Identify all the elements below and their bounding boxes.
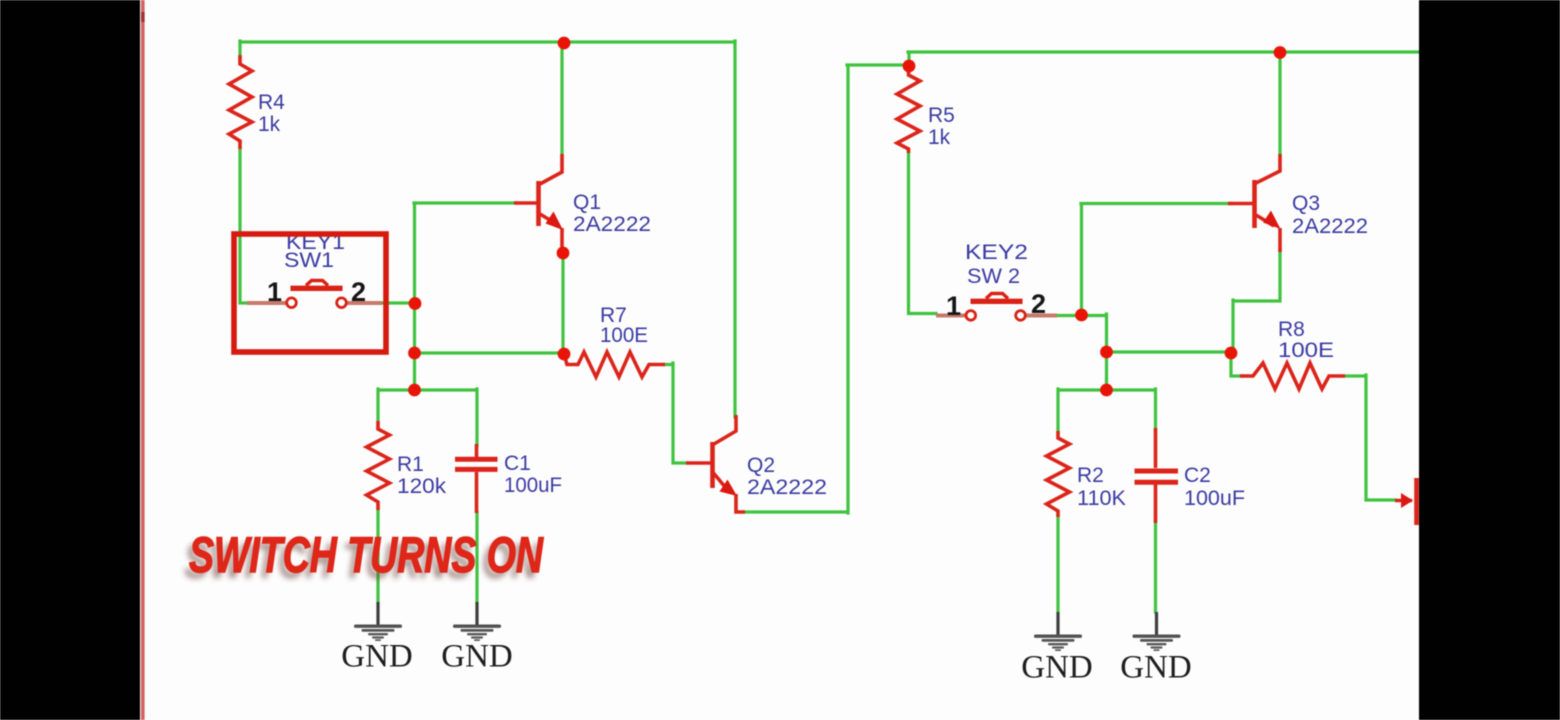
svg-text:2: 2 bbox=[351, 277, 366, 307]
svg-text:R2: R2 bbox=[1077, 464, 1104, 487]
svg-text:SW 2: SW 2 bbox=[967, 265, 1020, 288]
svg-text:100uF: 100uF bbox=[1184, 487, 1245, 510]
svg-text:100E: 100E bbox=[600, 324, 648, 347]
svg-text:GND: GND bbox=[1120, 650, 1192, 686]
svg-text:GND: GND bbox=[341, 639, 413, 675]
svg-text:110K: 110K bbox=[1077, 487, 1126, 510]
svg-text:Q3: Q3 bbox=[1292, 192, 1320, 215]
svg-text:1k: 1k bbox=[258, 113, 281, 136]
svg-text:120k: 120k bbox=[397, 475, 447, 498]
svg-text:R4: R4 bbox=[258, 91, 285, 114]
svg-text:SW1: SW1 bbox=[284, 249, 334, 272]
svg-text:Q2: Q2 bbox=[747, 454, 775, 477]
svg-text:2A2222: 2A2222 bbox=[1292, 215, 1368, 238]
svg-text:R1: R1 bbox=[397, 453, 424, 476]
svg-text:SWITCH TURNS ON: SWITCH TURNS ON bbox=[189, 526, 544, 583]
svg-text:C2: C2 bbox=[1184, 464, 1211, 487]
svg-text:GND: GND bbox=[441, 639, 513, 675]
svg-text:Q1: Q1 bbox=[573, 191, 601, 214]
svg-text:GND: GND bbox=[1021, 650, 1093, 686]
svg-text:1: 1 bbox=[946, 291, 961, 321]
svg-text:C1: C1 bbox=[504, 452, 531, 475]
svg-text:2A2222: 2A2222 bbox=[747, 476, 827, 499]
svg-text:1: 1 bbox=[267, 277, 282, 307]
svg-text:2A2222: 2A2222 bbox=[573, 213, 651, 236]
svg-text:KEY2: KEY2 bbox=[965, 241, 1028, 264]
svg-text:R5: R5 bbox=[928, 104, 955, 127]
svg-text:1k: 1k bbox=[928, 126, 951, 149]
svg-text:100uF: 100uF bbox=[504, 474, 562, 497]
svg-text:2: 2 bbox=[1031, 289, 1046, 319]
svg-text:100E: 100E bbox=[1278, 339, 1334, 362]
svg-text:R8: R8 bbox=[1278, 318, 1305, 341]
